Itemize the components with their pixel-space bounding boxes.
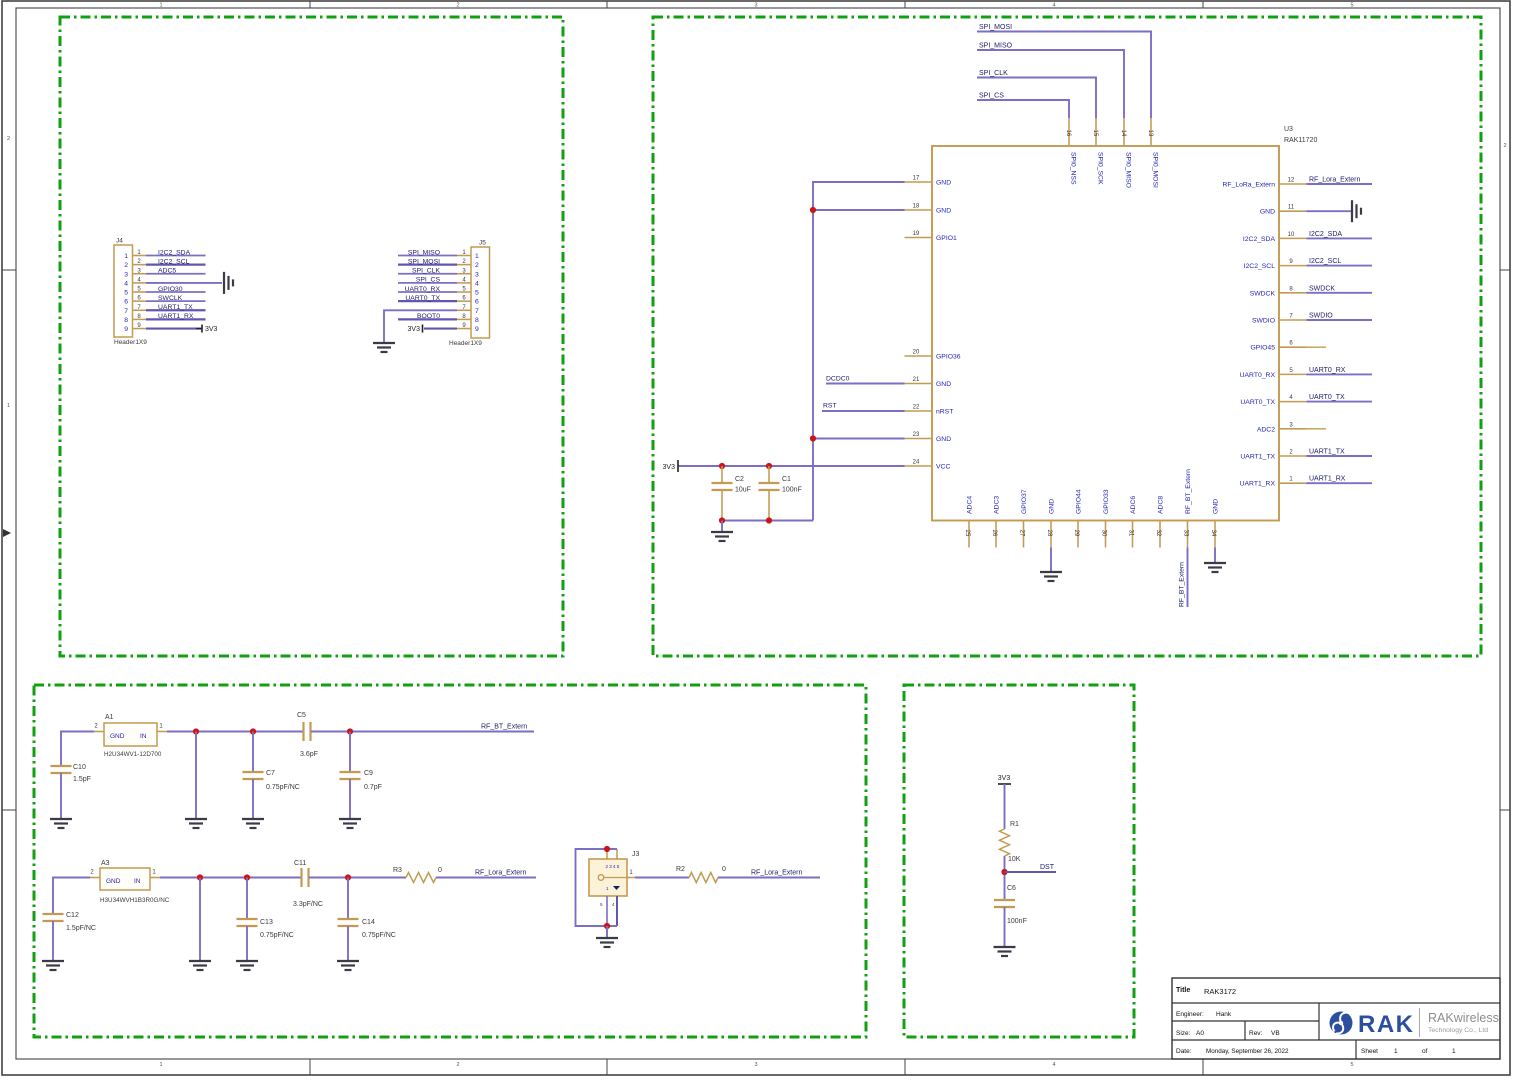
ground rail wire under decoupling caps [722, 520, 813, 522]
svg-text:28: 28 [1046, 530, 1052, 537]
IC pin 28 GND (bottom) [1046, 499, 1056, 548]
IC pin 9 I2C2_SCL (right) [1244, 259, 1307, 270]
svg-text:20: 20 [913, 350, 920, 356]
svg-text:A3: A3 [101, 860, 110, 867]
section border bottom-left [34, 685, 866, 1037]
svg-text:1: 1 [1394, 1048, 1398, 1055]
svg-text:31: 31 [1128, 530, 1134, 537]
ground below C10 [50, 819, 72, 828]
section border top-right [653, 17, 1481, 656]
zone labels sides [3, 136, 1507, 537]
svg-text:SWDIO: SWDIO [1309, 313, 1333, 320]
wire R2 to net RF_Lora_Extern [718, 877, 820, 879]
svg-text:100nF: 100nF [782, 487, 802, 494]
svg-text:10: 10 [1288, 232, 1295, 238]
svg-text:0.7pF: 0.7pF [364, 784, 382, 791]
svg-text:UART1_RX: UART1_RX [1240, 481, 1276, 488]
svg-text:SPI0_MOSI: SPI0_MOSI [1152, 152, 1159, 188]
svg-text:C13: C13 [260, 919, 273, 926]
svg-text:H3U34WVH1B3R0G/NC: H3U34WVH1B3R0G/NC [100, 897, 170, 904]
zone labels top [159, 3, 1353, 9]
svg-text:GPIO44: GPIO44 [1076, 489, 1083, 514]
stub wire pin 3 [1307, 428, 1327, 430]
zone labels bottom [159, 1062, 1353, 1068]
connector J4 pin stubs [133, 250, 147, 329]
wire J4 pin1 [146, 255, 206, 257]
section border top-left [60, 17, 563, 656]
svg-text:1: 1 [159, 1062, 162, 1068]
svg-text:15: 15 [1092, 130, 1098, 137]
antenna A3 body [100, 860, 170, 904]
svg-text:3.3pF/NC: 3.3pF/NC [293, 901, 323, 908]
svg-text:SPI_MISO: SPI_MISO [408, 249, 440, 256]
svg-text:Header1X9: Header1X9 [114, 339, 147, 346]
section border bottom-middle [904, 685, 1134, 1037]
svg-text:DCDC0: DCDC0 [826, 376, 850, 383]
IC pin 29 GPIO44 (bottom) [1073, 489, 1083, 547]
svg-text:1.5pF: 1.5pF [73, 776, 91, 783]
svg-text:Engineer:: Engineer: [1176, 1011, 1204, 1018]
svg-text:34: 34 [1210, 530, 1216, 537]
svg-text:GPIO36: GPIO36 [936, 354, 961, 361]
svg-text:GND: GND [936, 381, 951, 388]
connector J5 body [449, 240, 490, 348]
wire C2 vertical [721, 466, 723, 483]
svg-text:32: 32 [1155, 530, 1161, 537]
svg-text:12: 12 [1288, 178, 1295, 184]
wire J5 pin8 [398, 318, 457, 320]
svg-text:24: 24 [913, 460, 920, 466]
svg-text:3: 3 [754, 1062, 757, 1068]
svg-text:GND: GND [1213, 499, 1220, 514]
power flag 3V3 at VCC rail [663, 460, 678, 472]
wire R1 to C6 [1004, 856, 1006, 900]
svg-text:6: 6 [475, 299, 479, 306]
resistor R3 [406, 873, 436, 883]
capacitor C14 [338, 919, 396, 939]
wire J4 pin3 [146, 273, 206, 275]
IC pin 14 SPI0_MISO (top) [1120, 118, 1132, 188]
wire net UART1_TX [1307, 455, 1373, 457]
svg-text:3: 3 [124, 271, 128, 278]
svg-text:9: 9 [124, 326, 128, 333]
wire J5 pin1 [398, 255, 457, 257]
svg-text:9: 9 [475, 326, 479, 333]
wire pin21 DCDC0 [826, 383, 905, 385]
wire J5 pin2 [398, 264, 457, 266]
svg-text:1: 1 [475, 253, 479, 260]
svg-text:C12: C12 [66, 912, 79, 919]
svg-text:C9: C9 [364, 770, 373, 777]
wire J4 pin2 [146, 264, 206, 266]
wire J5 pin5 [398, 291, 457, 293]
wire to C9 [349, 732, 351, 773]
ground at J4 pin4 [224, 272, 233, 294]
zone ticks side margins [2, 270, 1510, 810]
svg-text:4: 4 [124, 280, 128, 287]
junction C7 top [250, 728, 256, 734]
capacitor C6 [994, 885, 1027, 925]
wire net SPI_CLK to pin 15 [977, 78, 1096, 119]
svg-text:C7: C7 [266, 770, 275, 777]
wire pin22 RST [822, 410, 905, 412]
IC pin 16 SPI0_NSS (top) [1065, 118, 1077, 185]
svg-text:RST: RST [823, 403, 837, 410]
wire to ground below C2 [721, 521, 723, 532]
svg-text:GND: GND [936, 208, 951, 215]
ground below C13 [236, 961, 258, 970]
junction J3 top [604, 846, 610, 852]
ground at J5 pin7 [373, 343, 395, 352]
wire to C7 [252, 732, 254, 773]
svg-text:SPI_MISO: SPI_MISO [979, 43, 1013, 50]
ground below junction B [189, 961, 211, 970]
wire net SPI_MISO to pin 14 [977, 50, 1124, 118]
wire net UART0_TX [1307, 401, 1373, 403]
svg-text:GND: GND [1049, 499, 1056, 514]
svg-text:GPIO45: GPIO45 [1250, 345, 1275, 352]
svg-text:BOOT0: BOOT0 [417, 313, 440, 320]
title block texts [1176, 987, 1456, 1055]
ground at IC pin28 [1040, 572, 1062, 581]
svg-text:33: 33 [1183, 530, 1189, 537]
svg-text:Header1X9: Header1X9 [449, 340, 482, 347]
svg-text:0.75pF/NC: 0.75pF/NC [266, 784, 300, 791]
svg-text:SPI0_NSS: SPI0_NSS [1070, 152, 1077, 185]
svg-text:4: 4 [1052, 3, 1055, 9]
svg-text:SPI0_MISO: SPI0_MISO [1125, 152, 1132, 188]
wire pin28 to ground [1050, 548, 1052, 572]
svg-text:18: 18 [913, 204, 920, 210]
wire to C13 [246, 878, 248, 920]
wire net I2C2_SDA [1307, 237, 1373, 239]
svg-text:ADC4: ADC4 [967, 496, 974, 514]
svg-text:1: 1 [1452, 1048, 1456, 1055]
svg-text:RF_BT_Extern: RF_BT_Extern [1179, 562, 1186, 607]
svg-text:R2: R2 [676, 866, 685, 873]
junction C1 bottom [766, 517, 772, 523]
wire to C14 [347, 878, 349, 920]
title block frame [1172, 978, 1500, 1059]
svg-text:3V3: 3V3 [663, 464, 676, 471]
svg-text:10uF: 10uF [735, 487, 751, 494]
svg-text:I2C2_SCL: I2C2_SCL [158, 258, 190, 265]
wire A3 pin2 to C12 [53, 878, 90, 915]
wire net RF_Lora_Extern [1307, 183, 1373, 185]
wire net SPI_CS to pin 16 [977, 100, 1069, 118]
IC pin 8 SWDCK (right) [1250, 286, 1307, 297]
svg-text:GPIO1: GPIO1 [936, 235, 957, 242]
wire net SPI_MOSI to pin 13 [977, 32, 1151, 119]
wire J4 pin8 [146, 318, 206, 320]
wire J5 pin3 [398, 273, 457, 275]
svg-text:RF_LoRa_Extern: RF_LoRa_Extern [1222, 182, 1275, 189]
svg-text:3V3: 3V3 [998, 775, 1011, 782]
A3 pin 1 stub [150, 870, 160, 878]
svg-text:SPI0_SCK: SPI0_SCK [1097, 152, 1104, 185]
junction pin23 [810, 435, 816, 441]
svg-text:26: 26 [991, 530, 997, 537]
IC U3 RAK11720 body [932, 126, 1317, 521]
svg-text:GND: GND [936, 180, 951, 187]
capacitor C1 [759, 476, 802, 494]
wire C13 to ground [246, 926, 248, 960]
junction DST node [1001, 869, 1007, 875]
IC pin 34 GND (bottom) [1210, 499, 1220, 548]
svg-text:ADC6: ADC6 [1130, 496, 1137, 514]
capacitor C5 [304, 722, 311, 741]
wire 3V3 to R1 [1004, 784, 1006, 829]
svg-text:SPI_CS: SPI_CS [416, 277, 441, 284]
svg-text:UART0_RX: UART0_RX [405, 286, 441, 293]
svg-text:SPI_CLK: SPI_CLK [412, 268, 440, 275]
logo divider [1419, 1008, 1421, 1037]
svg-text:30: 30 [1101, 530, 1107, 537]
svg-text:2: 2 [1503, 143, 1506, 149]
svg-text:A0: A0 [1196, 1030, 1204, 1037]
IC pin 26 ADC3 (bottom) [991, 496, 1001, 548]
svg-text:2: 2 [456, 1062, 459, 1068]
svg-text:SWDCK: SWDCK [1309, 285, 1335, 292]
junction B [197, 874, 203, 880]
wire pin18 GND [813, 209, 905, 211]
junction C2 bottom [719, 517, 725, 523]
svg-text:DST: DST [1040, 864, 1055, 871]
svg-text:0: 0 [722, 866, 726, 873]
resistor R1 [1000, 829, 1010, 856]
svg-text:C1: C1 [782, 476, 791, 483]
svg-text:29: 29 [1073, 530, 1079, 537]
svg-text:4: 4 [1052, 1062, 1055, 1068]
svg-text:SWDCK: SWDCK [1250, 290, 1276, 297]
wire J4 pin7 [146, 309, 206, 311]
IC pin 30 GPIO33 (bottom) [1101, 489, 1111, 547]
wire A3 pin1 to C11 [160, 877, 301, 879]
wire J4 pin6 [146, 300, 206, 302]
svg-text:11: 11 [1288, 205, 1295, 211]
wire C1 bottom [768, 490, 770, 521]
svg-text:Date:: Date: [1176, 1048, 1192, 1055]
connector J4 body [114, 238, 147, 347]
svg-text:10K: 10K [1008, 856, 1021, 863]
capacitor C7 [243, 770, 300, 791]
connector J5 pin numbers inside [475, 253, 479, 333]
svg-text:RF_BT_Extern: RF_BT_Extern [1185, 469, 1192, 514]
svg-text:VB: VB [1271, 1030, 1280, 1037]
svg-text:100nF: 100nF [1007, 918, 1027, 925]
connector J5 pin stubs [457, 250, 471, 329]
IC pin 10 I2C2_SDA (right) [1243, 232, 1307, 243]
svg-text:RF_Lora_Extern: RF_Lora_Extern [751, 870, 802, 877]
svg-text:H2U34WV1-12D700: H2U34WV1-12D700 [104, 751, 162, 758]
svg-text:RAK3172: RAK3172 [1204, 987, 1236, 996]
A1 pin 1 stub [157, 724, 167, 732]
ground below C6 [994, 947, 1016, 956]
R1 labels [1008, 821, 1021, 863]
svg-text:J3: J3 [632, 851, 640, 858]
svg-text:RF_Lora_Extern: RF_Lora_Extern [1309, 177, 1360, 184]
svg-text:7: 7 [124, 308, 128, 315]
svg-text:J4: J4 [116, 238, 123, 245]
ground below C9 [339, 819, 361, 828]
IC pin 24 VCC (left) [905, 460, 951, 471]
svg-text:27: 27 [1019, 530, 1025, 537]
svg-text:UART0_TX: UART0_TX [1309, 394, 1345, 401]
wire C14 to ground [347, 926, 349, 960]
svg-text:Sheet: Sheet [1361, 1048, 1378, 1055]
svg-text:3V3: 3V3 [205, 326, 218, 333]
svg-text:19: 19 [913, 231, 920, 237]
J3 pin 1 stub [627, 870, 635, 878]
svg-text:1: 1 [124, 253, 128, 260]
ground below C12 [42, 961, 64, 970]
junction J3 bottom [604, 923, 610, 929]
svg-text:23: 23 [913, 432, 920, 438]
IC pin 5 UART0_RX (right) [1240, 368, 1307, 379]
C5 labels [297, 712, 318, 758]
IC pin 6 GPIO45 (right) [1250, 341, 1306, 352]
svg-text:Size:: Size: [1176, 1030, 1191, 1037]
IC pin 22 nRST (left) [905, 405, 954, 416]
svg-text:UART1_RX: UART1_RX [1309, 476, 1346, 483]
svg-text:22: 22 [913, 405, 920, 411]
A3 pin 2 stub [90, 870, 100, 878]
ground at IC pin11 [1352, 200, 1361, 222]
IC pin 23 GND (left) [905, 432, 952, 443]
IC pin 4 UART0_TX (right) [1240, 395, 1306, 406]
IC pin 1 UART1_RX (right) [1240, 477, 1307, 488]
svg-text:SWCLK: SWCLK [158, 295, 183, 302]
wire pin23 GND [813, 438, 905, 440]
capacitor C11 [302, 868, 309, 887]
ground at IC pin34 [1204, 563, 1226, 572]
IC pin 19 GPIO1 (left) [905, 231, 957, 242]
svg-text:5: 5 [1350, 3, 1353, 9]
ground below J3 [596, 938, 618, 947]
GND bus wire left of IC [813, 182, 905, 521]
junction C2 top [719, 463, 725, 469]
svg-text:GND: GND [106, 878, 121, 885]
svg-text:I2C2_SCL: I2C2_SCL [1244, 263, 1276, 270]
wire pin33 RF_BT_Extern [1187, 548, 1189, 608]
IC pin 17 GND (left) [905, 176, 952, 187]
svg-text:UART0_TX: UART0_TX [1240, 399, 1275, 406]
svg-text:0.75pF/NC: 0.75pF/NC [260, 932, 294, 939]
IC pin 31 ADC6 (bottom) [1128, 496, 1138, 548]
zone ticks bottom margin [310, 1059, 1203, 1075]
svg-text:I2C2_SDA: I2C2_SDA [158, 249, 191, 256]
resistor R2 [689, 873, 718, 883]
wire junction B to ground [199, 878, 201, 961]
wire net SWDCK [1307, 292, 1373, 294]
wire C12 to ground [52, 921, 54, 960]
svg-text:R1: R1 [1010, 821, 1019, 828]
svg-text:3.6pF: 3.6pF [300, 751, 318, 758]
svg-text:6: 6 [124, 299, 128, 306]
wire C5 to net RF_BT_Extern [311, 731, 534, 733]
connector J4 pin numbers inside [124, 253, 128, 333]
svg-text:3V3: 3V3 [408, 326, 421, 333]
svg-text:2: 2 [475, 262, 479, 269]
IC pin 32 ADC8 (bottom) [1155, 496, 1165, 548]
svg-text:13: 13 [1147, 130, 1153, 137]
svg-text:I2C2_SDA: I2C2_SDA [1243, 236, 1276, 243]
IC pin 25 ADC4 (bottom) [964, 496, 974, 548]
svg-text:UART1_TX: UART1_TX [158, 304, 193, 311]
wire C11 to R3 [309, 877, 406, 879]
ground below C14 [337, 961, 359, 970]
wire R3 to net RF_Lora_Extern [436, 877, 536, 879]
svg-text:SPI_CLK: SPI_CLK [979, 70, 1008, 77]
VCC rail wire [678, 465, 905, 467]
svg-text:J5: J5 [479, 240, 486, 247]
J3 bottom pin stubs [607, 896, 617, 926]
svg-text:SPI_MOSI: SPI_MOSI [408, 258, 440, 265]
IC pin 2 UART1_TX (right) [1240, 450, 1306, 461]
J3 top pin stubs [607, 849, 617, 859]
power flag 3V3 above R1 [998, 775, 1011, 784]
svg-text:5: 5 [475, 290, 479, 297]
svg-text:25: 25 [964, 530, 970, 537]
wire net SWDIO [1307, 319, 1373, 321]
capacitor C13 [237, 919, 294, 939]
svg-text:RF_Lora_Extern: RF_Lora_Extern [475, 870, 526, 877]
svg-text:Title: Title [1176, 987, 1190, 994]
svg-text:R3: R3 [393, 867, 402, 874]
svg-text:2: 2 [456, 3, 459, 9]
svg-text:SPI_CS: SPI_CS [979, 93, 1004, 100]
wire net UART1_RX [1307, 482, 1373, 484]
C11 labels [293, 860, 323, 908]
svg-text:2: 2 [7, 136, 10, 142]
wire A1 pin2 to C10 [61, 732, 94, 767]
capacitor C12 [43, 912, 96, 932]
svg-text:3: 3 [754, 3, 757, 9]
svg-text:7: 7 [475, 308, 479, 315]
RAK logo icon [1330, 1012, 1353, 1035]
svg-text:Rev:: Rev: [1249, 1030, 1263, 1037]
wire J4 pin4 to ground [146, 282, 222, 284]
svg-text:GND: GND [110, 733, 125, 740]
wire J5 pin6 [398, 300, 457, 302]
ground below C7 [242, 819, 264, 828]
svg-text:Hank: Hank [1216, 1011, 1232, 1018]
wire junction A to ground [195, 732, 197, 819]
svg-text:SPI_MOSI: SPI_MOSI [979, 24, 1012, 31]
wire C6 to ground [1004, 907, 1006, 946]
J3 shield loop wire [576, 849, 618, 926]
svg-text:C14: C14 [362, 919, 375, 926]
wire net UART0_RX [1307, 373, 1373, 375]
svg-text:A1: A1 [105, 714, 114, 721]
svg-text:21: 21 [913, 377, 920, 383]
IC pin 18 GND (left) [905, 204, 952, 215]
svg-text:IN: IN [134, 878, 141, 885]
svg-text:GND: GND [936, 436, 951, 443]
R2 labels [676, 866, 726, 873]
svg-text:3: 3 [475, 271, 479, 278]
svg-text:Technology Co., Ltd: Technology Co., Ltd [1428, 1027, 1488, 1034]
wire J5 pin7 to ground [384, 310, 457, 342]
ground below decoupling caps [711, 532, 733, 541]
svg-text:16: 16 [1065, 130, 1071, 137]
power flag 3V3 at J5 pin9 [408, 325, 423, 334]
junction C14 top [345, 874, 351, 880]
svg-text:UART0_RX: UART0_RX [1309, 367, 1346, 374]
svg-text:SWDIO: SWDIO [1252, 318, 1275, 325]
svg-text:RAK: RAK [1358, 1011, 1415, 1038]
RAKwireless text [1428, 1011, 1499, 1034]
